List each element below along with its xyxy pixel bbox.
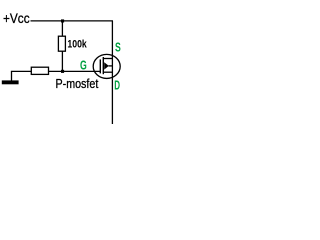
svg-text:P-mosfet: P-mosfet [56,76,99,91]
junction dot at gate node [61,70,64,73]
bulk stub from arrow tip to source line [109,65,113,67]
svg-text:100k: 100k [67,39,87,51]
svg-text:G: G [80,58,87,73]
ground symbol bar [2,80,19,84]
wire from +Vcc node down to resistor R1 [61,21,63,37]
drain stub (bottom) [103,71,112,73]
wire source/drain vertical (top wire corner to bottom edge) [111,21,113,124]
wire from ground stem to resistor R2 [11,70,31,72]
ground stem wire [11,71,13,80]
wire from R1 bottom to gate node [61,51,63,71]
source stub (top) [103,58,112,60]
resistor R1 body [58,36,65,51]
transistor Q1 P-mosfet body circle [93,54,120,78]
channel bar [102,57,104,74]
wire from R2 through gate node to gate [49,70,101,72]
svg-text:S: S [115,40,121,55]
gate bar [99,59,101,73]
bulk arrow (points right, P-channel) [104,62,109,69]
wire top horizontal from +Vcc to top-right corner [31,20,114,22]
svg-text:+Vcc: +Vcc [3,10,30,26]
svg-text:D: D [114,77,120,92]
junction dot at +Vcc node [61,19,64,22]
resistor R2 body [31,67,48,74]
